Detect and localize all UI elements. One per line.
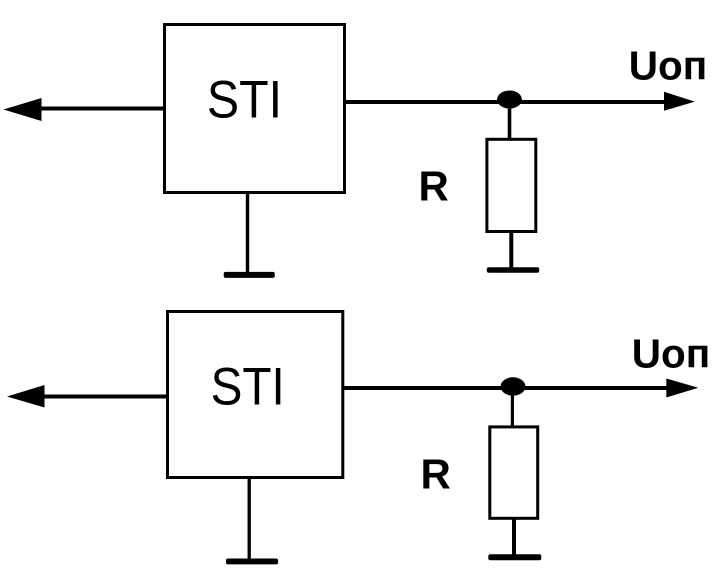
wire: U2 bottom pin to ground [248,478,251,560]
wire: node N2 down to resistor R (bottom circuit) [511,388,514,427]
wire: U2 right output to Uop (bottom circuit) [344,386,675,390]
label Uop (bottom circuit) [632,331,710,377]
arrowhead: left output arrow (top circuit) [4,98,42,121]
wire: resistor R to ground (top circuit) [509,232,513,269]
svg-text:R: R [419,163,449,210]
svg-text:Uoп: Uoп [629,43,707,89]
block U1 (STI converter, top circuit) [165,25,345,193]
wire: U1 bottom pin to ground [246,192,249,272]
wire: resistor R to ground (bottom circuit) [512,518,516,556]
label Uop (top circuit) [629,43,707,89]
svg-text:Uoп: Uoп [632,331,710,377]
resistor R (top circuit) [487,139,536,231]
svg-text:STI: STI [207,69,282,129]
block U2 (STI converter, bottom circuit) [168,312,343,478]
wire: left output of U2 [43,395,167,399]
label STI (U2) [211,356,285,416]
node N1: junction dot (top circuit) [497,91,522,109]
arrowhead: Uop output arrow (top circuit) [664,92,695,111]
arrowhead: Uop output arrow (bottom circuit) [666,379,698,398]
label R (top circuit) [419,163,449,210]
ground: below resistor R (top circuit) [487,267,539,273]
resistor R (bottom circuit) [490,427,538,518]
svg-text:R: R [421,451,451,498]
node N2: junction dot (bottom circuit) [501,377,526,395]
ground: below U2 [226,559,278,565]
wire: U1 right output to Uop (top circuit) [345,100,672,104]
ground: below U1 [224,272,275,278]
wire: left output of U1 [40,107,164,111]
ground: below resistor R (bottom circuit) [488,554,541,560]
label STI (U1) [207,69,282,129]
arrowhead: left output arrow (bottom circuit) [7,385,45,408]
label R (bottom circuit) [421,451,451,498]
svg-text:STI: STI [211,356,285,416]
wire: node N1 down to resistor R (top circuit) [508,100,512,139]
